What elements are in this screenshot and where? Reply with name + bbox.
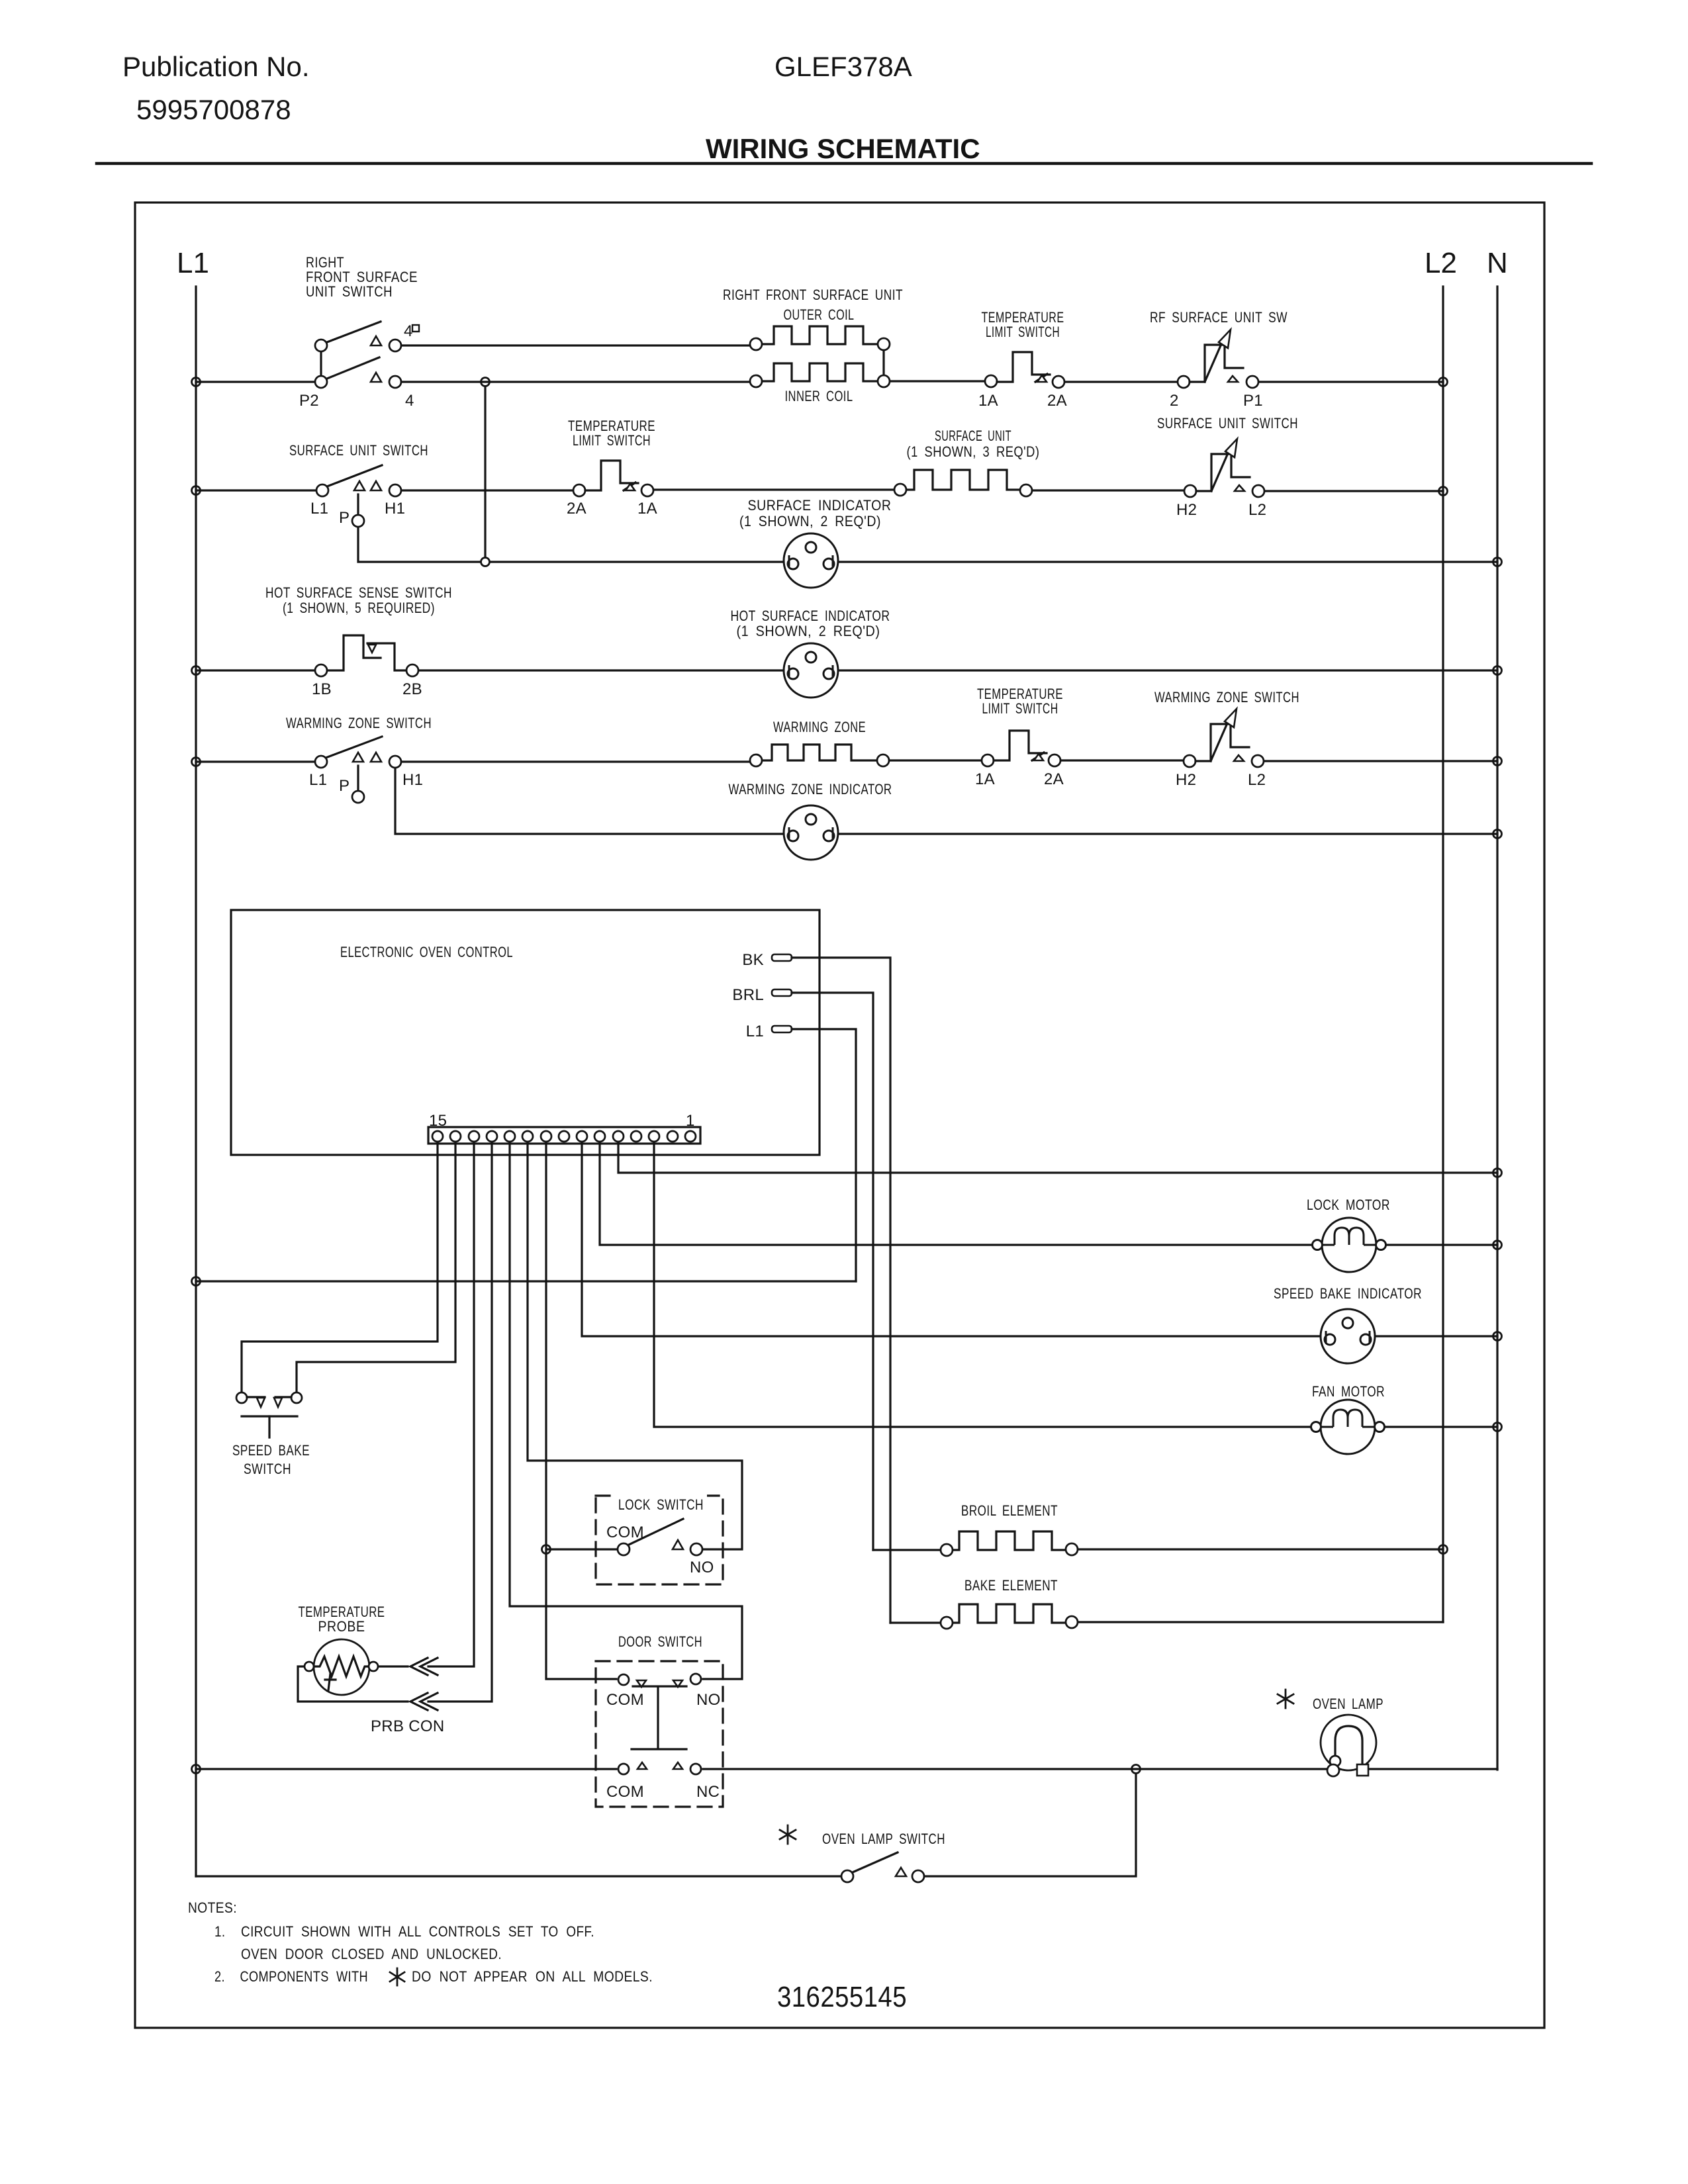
svg-text:PRB CON: PRB CON [371,1717,444,1735]
header rule [97,162,1591,165]
wire L2 supply rail [1442,287,1444,1622]
wire L1 supply rail [195,287,197,1876]
broil element heater coil [873,1531,1443,1556]
svg-text:SURFACE UNIT: SURFACE UNIT [935,428,1011,444]
temperature probe RT1 (thermistor) [305,1639,378,1695]
svg-text:RF SURFACE UNIT SW: RF SURFACE UNIT SW [1150,309,1288,326]
svg-text:LIMIT SWITCH: LIMIT SWITCH [573,432,651,449]
wire pin14 to speed bake switch right [297,1142,455,1392]
hot surface sense switch, terminals 1B/2B [315,635,418,676]
svg-text:HOT SURFACE SENSE SWITCH: HOT SURFACE SENSE SWITCH [265,584,452,601]
temperature limit switch row2, terminals 2A/1A [573,461,653,496]
asterisk (oven lamp) [1278,1690,1293,1708]
svg-text:WARMING ZONE SWITCH: WARMING ZONE SWITCH [286,715,432,731]
svg-text:P2: P2 [299,392,319,410]
svg-text:NO: NO [690,1559,714,1576]
temperature limit switch row1, terminals 1A/2A [985,352,1064,388]
RF surface unit switch, terminals 2/P1 [1178,330,1258,388]
junction lock motor / N [1493,1241,1502,1250]
svg-text:NO: NO [696,1691,721,1709]
svg-text:2A: 2A [1044,770,1064,788]
junction broil / L2 [1439,1545,1448,1554]
junction L1 rail / tie line [192,1277,201,1286]
surface unit switch row2 right, terminals H2/L2 [1184,439,1264,497]
wire coil to surface unit switch row2 right [1033,489,1183,491]
lock switch S1 (dashed enclosure) [596,1496,723,1584]
svg-text:P1: P1 [1243,392,1263,410]
svg-text:2: 2 [1170,392,1179,410]
connector PRB CON chevron (bottom) [410,1693,438,1710]
heater inner coil [750,363,890,387]
wire L1 rail to door switch COM lower [196,1768,616,1770]
svg-text:(1 SHOWN, 5 REQUIRED): (1 SHOWN, 5 REQUIRED) [283,600,435,616]
junction L1/row1 [192,378,201,387]
svg-text:Publication No.: Publication No. [122,51,310,82]
wire drop from row1 junction to surface indicator line [484,387,486,557]
svg-text:GLEF378A: GLEF378A [774,51,912,82]
wire door NC to oven lamp and N rail [703,1768,1497,1770]
wire probe left terminal loop [298,1666,408,1702]
svg-text:SURFACE UNIT SWITCH: SURFACE UNIT SWITCH [289,442,428,459]
svg-text:(1 SHOWN, 2 REQ'D): (1 SHOWN, 2 REQ'D) [739,513,881,529]
wire limit switch to warming zone switch right [1062,759,1182,761]
svg-text:L1: L1 [310,500,328,518]
wire probe right terminal [379,1665,408,1667]
svg-text:P: P [339,509,350,527]
svg-text:COM: COM [606,1524,644,1541]
wire warming zone switch to N rail [1265,760,1497,762]
wire BRL to broil element feed [792,993,873,1550]
svg-text:PROBE: PROBE [318,1618,365,1635]
junction warming indicator / N [1493,830,1502,839]
wire pin11 to door switch NO [510,1142,742,1679]
svg-text:2A: 2A [1047,392,1067,410]
wire coil to temperature limit switch row4 [890,759,980,761]
svg-text:1A: 1A [975,770,995,788]
door switch upper contacts COM/NO [618,1674,701,1687]
svg-text:(1 SHOWN, 3 REQ'D): (1 SHOWN, 3 REQ'D) [907,443,1040,460]
svg-text:OVEN LAMP: OVEN LAMP [1313,1696,1383,1712]
warming zone heater coil [750,745,889,766]
svg-text:DO NOT APPEAR ON ALL MODELS.: DO NOT APPEAR ON ALL MODELS. [412,1968,653,1985]
svg-text:2. COMPONENTS WITH: 2. COMPONENTS WITH [214,1968,368,1985]
junction L1/row2 [192,486,201,495]
svg-text:H1: H1 [385,500,405,518]
wire row1 top contact to outer coil [402,344,749,346]
wire limit switch to RF surface unit sw [1066,381,1176,383]
svg-text:BRL: BRL [732,986,764,1004]
junction L1/row3 [192,666,201,675]
svg-text:BAKE ELEMENT: BAKE ELEMENT [964,1577,1058,1594]
svg-text:5995700878: 5995700878 [136,94,291,125]
svg-text:INNER COIL: INNER COIL [785,388,853,404]
svg-text:(1 SHOWN, 2 REQ'D): (1 SHOWN, 2 REQ'D) [737,623,880,639]
fan motor M2 [1311,1400,1385,1454]
indicator lamp: surface indicator [784,533,838,588]
junction surface indicator / N [1493,558,1502,567]
wire N supply rail [1496,287,1498,1770]
svg-text:COM: COM [606,1691,644,1709]
svg-text:DOOR SWITCH: DOOR SWITCH [618,1633,702,1650]
svg-text:LOCK SWITCH: LOCK SWITCH [618,1496,704,1513]
warming zone switch right, terminals H2/L2 [1184,709,1264,767]
svg-text:LIMIT SWITCH: LIMIT SWITCH [986,324,1060,340]
door switch lower contacts COM/NC [618,1762,701,1774]
junction oven lamp switch riser [1132,1765,1141,1774]
svg-text:BROIL ELEMENT: BROIL ELEMENT [961,1502,1058,1519]
wire L2 contact to L2 rail [1266,490,1443,492]
svg-text:L2: L2 [1248,501,1266,519]
junction L1/row4 [192,758,201,766]
wire joining outer and inner coil [882,351,884,375]
schematic border frame [135,203,1544,2028]
svg-text:WARMING ZONE INDICATOR: WARMING ZONE INDICATOR [729,781,892,797]
svg-text:1A: 1A [978,392,998,410]
wire surface indicator line to N rail [490,561,1497,563]
door switch S2 (dashed enclosure) [596,1661,723,1807]
junction pin9 wire / lock COM [542,1545,551,1554]
lock switch contacts COM/NO [618,1519,702,1555]
svg-text:COM: COM [606,1783,644,1801]
wire pin9 to lock switch COM and door switch COM [546,1142,616,1679]
svg-text:L1: L1 [309,771,327,789]
svg-text:L1: L1 [177,247,209,279]
bake element heater coil [890,1604,1443,1629]
asterisk (note 2) [390,1968,404,1985]
connector strip of oven control, pins 15..1 [428,1127,700,1144]
door switch actuator [632,1686,686,1749]
junction indicator line [481,558,490,567]
oven lamp DS1 [1321,1715,1376,1776]
svg-text:HOT SURFACE INDICATOR: HOT SURFACE INDICATOR [731,608,890,624]
publication number label [122,51,310,125]
wire pin15 to speed bake switch left [242,1142,438,1392]
svg-text:UNIT SWITCH: UNIT SWITCH [306,283,393,300]
wire row1 main to inner coil [402,381,749,383]
wire BK to bake element feed [792,958,890,1623]
svg-text:WARMING ZONE: WARMING ZONE [773,719,866,735]
svg-text:ELECTRONIC OVEN CONTROL: ELECTRONIC OVEN CONTROL [340,944,513,960]
wire P terminal drop to surface indicator line [358,528,481,562]
junction L1 / lamp line [192,1765,201,1774]
svg-text:SPEED BAKE: SPEED BAKE [232,1442,310,1459]
heater outer coil [750,326,890,350]
lock motor M1 [1313,1218,1386,1272]
svg-text:H2: H2 [1176,771,1196,789]
svg-text:RIGHT FRONT SURFACE UNIT: RIGHT FRONT SURFACE UNIT [723,287,903,303]
svg-text:OVEN LAMP SWITCH: OVEN LAMP SWITCH [822,1831,945,1847]
svg-text:SPEED BAKE INDICATOR: SPEED BAKE INDICATOR [1274,1285,1422,1302]
wire pin12 to temperature probe return (via PRB CON) [428,1142,492,1702]
svg-text:OVEN DOOR CLOSED AND UNLOCKED.: OVEN DOOR CLOSED AND UNLOCKED. [241,1946,502,1962]
connector PRB CON chevron (top) [410,1658,438,1675]
junction row1 / L2 [1439,378,1448,387]
junction speed bake indicator / N [1493,1332,1502,1341]
svg-text:L2: L2 [1425,247,1457,279]
temperature limit switch row4, terminals 1A/2A [982,731,1060,766]
indicator lamp: warming zone indicator [784,805,838,860]
svg-text:H1: H1 [402,771,423,789]
junction row4 / N [1493,757,1502,766]
junction pin5 wire / N [1493,1169,1502,1177]
svg-text:LOCK MOTOR: LOCK MOTOR [1307,1197,1390,1213]
junction row1 / indicator drop [481,378,490,387]
wire pin7 to speed bake indicator line [582,1142,1497,1336]
svg-text:NOTES:: NOTES: [188,1899,237,1916]
svg-text:SURFACE INDICATOR: SURFACE INDICATOR [748,497,892,514]
svg-text:1: 1 [686,1112,695,1130]
wire inner coil to temperature limit switch [890,380,984,382]
asterisk (oven lamp switch) [780,1825,796,1844]
wire H1 drop to warming zone indicator line [395,769,1497,834]
wire 2B to N rail (hot surface indicator line) [420,669,1497,671]
svg-text:316255145: 316255145 [777,1981,907,2013]
svg-text:SURFACE UNIT SWITCH: SURFACE UNIT SWITCH [1157,415,1298,432]
wire H1 to temperature limit switch row2 [402,489,572,491]
svg-text:1B: 1B [312,680,332,698]
wire pin5 to N rail [618,1142,1497,1173]
svg-text:LIMIT SWITCH: LIMIT SWITCH [982,700,1058,717]
switch: right front surface unit switch, poles P2/4 [315,322,401,388]
junction row3 / N [1493,666,1502,675]
svg-text:1. CIRCUIT SHOWN WITH ALL CON: 1. CIRCUIT SHOWN WITH ALL CONTROLS SET T… [214,1923,594,1940]
indicator lamp: hot surface indicator [784,643,838,698]
svg-text:OUTER COIL: OUTER COIL [784,306,855,323]
wire P1 to L2 rail [1260,381,1443,383]
indicator lamp: speed bake indicator [1321,1309,1375,1363]
wire L1 rail to oven lamp switch [196,1875,840,1877]
svg-text:P: P [339,777,350,795]
svg-text:1A: 1A [637,500,657,518]
svg-text:4: 4 [404,322,413,340]
wire row2 L1 to switch [196,489,315,491]
junction row2 / L2 [1439,487,1448,496]
svg-text:NC: NC [696,1783,720,1801]
svg-text:2A: 2A [567,500,586,518]
wire 1A to surface unit coil [655,488,893,490]
junction fan motor / N [1493,1423,1502,1432]
svg-text:2B: 2B [402,680,422,698]
wire L1 terminal to L1 rail tie line [792,1029,856,1281]
wire row4 L1 to switch [196,760,314,762]
speed bake switch [236,1392,302,1437]
svg-text:WARMING ZONE SWITCH: WARMING ZONE SWITCH [1154,689,1299,705]
wire row3 L1 to sense switch [196,669,314,671]
svg-text:FAN MOTOR: FAN MOTOR [1312,1383,1385,1400]
svg-text:H2: H2 [1176,501,1197,519]
warming zone switch row4, terminals L1/P/H1 [315,737,401,803]
svg-text:4: 4 [405,392,414,410]
svg-text:WIRING SCHEMATIC: WIRING SCHEMATIC [706,133,980,164]
svg-text:L1: L1 [746,1023,764,1040]
surface unit switch row2, terminals L1/P/H1 [316,465,401,527]
wire oven lamp switch to riser [925,1774,1136,1876]
svg-text:L2: L2 [1248,771,1266,789]
svg-text:SWITCH: SWITCH [244,1461,291,1477]
wire L1 rail tie line [196,1280,856,1282]
wire row1 L1 to switch P2 [196,381,314,383]
wire H1 to warming zone coil [402,760,749,762]
wire pin13 to temperature probe (via PRB CON) [428,1142,474,1666]
svg-text:15: 15 [429,1112,447,1130]
electronic oven control U1 [231,910,820,1155]
wire pin3 to fan motor line [654,1142,1497,1427]
svg-text:BK: BK [742,951,764,969]
oven lamp switch [841,1852,924,1882]
surface unit heater coil [894,470,1032,496]
wire pin6 to lock motor line [600,1142,1497,1245]
wire pin10 to lock switch NO [528,1142,742,1549]
svg-text:N: N [1487,247,1508,279]
